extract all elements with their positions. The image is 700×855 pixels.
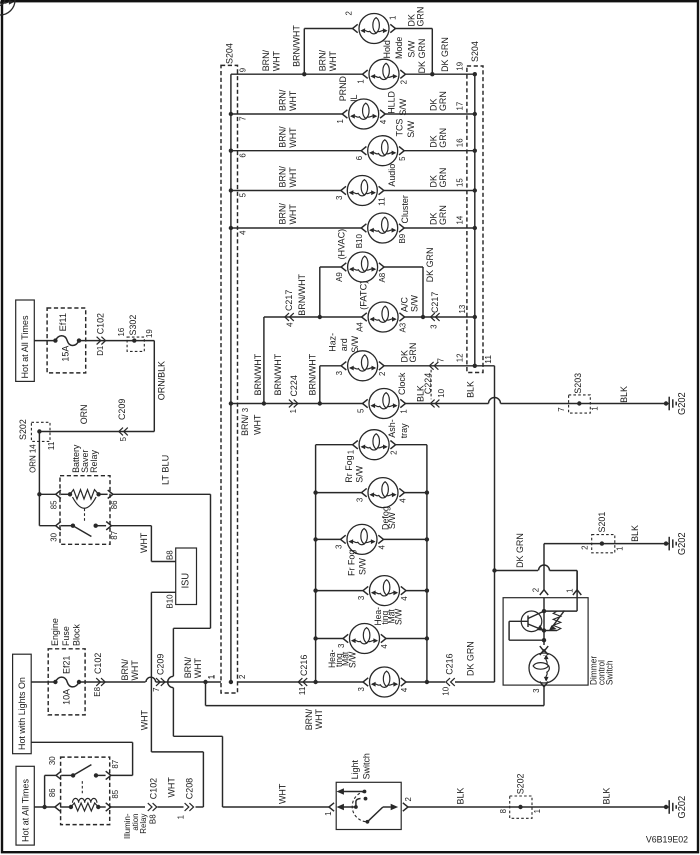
svg-text:C217: C217 [430,292,441,313]
svg-text:1: 1 [335,119,345,124]
svg-text:Hot at All Times: Hot at All Times [20,779,31,842]
svg-text:WHT: WHT [328,51,339,71]
svg-text:ISU: ISU [181,573,192,589]
svg-text:GRN: GRN [438,91,449,111]
svg-text:Switch: Switch [362,753,373,779]
svg-text:11: 11 [46,441,56,450]
svg-text:4: 4 [238,230,248,235]
svg-text:S302: S302 [128,315,139,336]
svg-text:7: 7 [151,687,161,692]
svg-text:BRN/WHT: BRN/WHT [297,274,308,316]
svg-text:LT BLU: LT BLU [161,455,172,485]
svg-text:Engine: Engine [50,618,61,646]
svg-text:WHT: WHT [288,127,299,147]
svg-text:V6B19E02: V6B19E02 [646,835,688,845]
svg-text:87: 87 [109,531,119,540]
svg-text:Ef11: Ef11 [58,313,69,331]
svg-text:3: 3 [356,687,366,692]
svg-text:S202: S202 [516,774,527,795]
svg-text:4: 4 [399,596,409,601]
svg-text:6: 6 [354,156,364,161]
svg-text:S/W: S/W [407,40,418,58]
svg-text:1: 1 [387,15,397,20]
svg-text:BRN/: BRN/ [278,126,289,148]
svg-text:DK GRN: DK GRN [440,37,451,72]
svg-text:GRN: GRN [438,168,449,188]
svg-text:17: 17 [454,101,464,110]
svg-text:8: 8 [498,809,508,814]
svg-text:BRN/: BRN/ [261,50,272,72]
svg-text:C208: C208 [185,778,196,799]
svg-text:ORN 14: ORN 14 [27,444,37,473]
svg-text:1: 1 [206,674,216,679]
svg-text:WHT: WHT [288,167,299,187]
svg-text:Clock: Clock [397,373,408,395]
svg-text:Relay: Relay [89,450,100,473]
svg-text:30: 30 [47,756,57,765]
svg-text:S204: S204 [470,41,481,62]
svg-text:DK GRN: DK GRN [425,248,436,283]
svg-text:10: 10 [440,687,450,696]
svg-text:TCS: TCS [395,119,406,137]
svg-text:1: 1 [532,809,542,814]
svg-text:5: 5 [118,437,128,442]
svg-text:30: 30 [48,533,58,542]
svg-text:3: 3 [336,643,346,648]
svg-text:B9: B9 [397,234,407,244]
svg-text:DK GRN: DK GRN [417,39,428,74]
svg-text:11: 11 [483,355,493,364]
svg-text:6: 6 [238,153,248,158]
svg-text:3: 3 [354,498,364,503]
svg-text:S201: S201 [597,512,608,533]
svg-text:B8: B8 [148,814,158,824]
svg-text:BRN/WHT: BRN/WHT [273,354,284,396]
svg-text:WHT: WHT [288,204,299,224]
svg-text:A9: A9 [334,272,344,282]
svg-text:S203: S203 [573,373,584,394]
svg-text:2: 2 [388,450,398,455]
svg-text:C209: C209 [117,399,128,420]
svg-text:E8: E8 [92,687,102,697]
svg-text:3: 3 [240,408,250,413]
svg-text:4: 4 [379,644,389,649]
svg-text:GRN: GRN [438,205,449,225]
svg-text:GRN: GRN [415,7,426,27]
svg-text:85: 85 [48,500,58,509]
svg-text:S/W: S/W [387,511,398,529]
svg-text:Block: Block [72,624,83,646]
svg-text:D1: D1 [95,345,105,355]
svg-text:87: 87 [110,760,120,769]
svg-text:13: 13 [457,304,467,313]
svg-text:4: 4 [397,498,407,503]
svg-text:1: 1 [323,811,333,816]
svg-text:WHT: WHT [193,658,204,678]
svg-text:Light: Light [350,760,361,780]
svg-text:A3: A3 [397,323,407,333]
svg-text:BLK: BLK [466,380,477,397]
svg-text:86: 86 [109,500,119,509]
svg-text:A4: A4 [355,322,365,332]
svg-text:4: 4 [376,545,386,550]
svg-text:S/W: S/W [350,335,361,353]
svg-text:7: 7 [238,116,248,121]
svg-text:C102: C102 [93,653,104,674]
svg-text:Mode: Mode [394,37,405,59]
svg-text:4: 4 [399,688,409,693]
svg-text:BRN/: BRN/ [278,89,289,111]
svg-text:(HVAC): (HVAC) [336,229,347,260]
svg-text:3: 3 [333,544,343,549]
svg-text:1: 1 [564,588,574,593]
svg-text:C217: C217 [284,290,295,311]
svg-text:BRN/WHT: BRN/WHT [292,25,303,67]
svg-text:19: 19 [454,62,464,71]
svg-text:WHT: WHT [139,533,150,553]
svg-text:WHT: WHT [278,784,289,804]
svg-text:BLK: BLK [630,524,641,541]
svg-text:3: 3 [531,688,541,693]
svg-text:2: 2 [530,588,540,593]
svg-text:10: 10 [436,389,446,398]
svg-text:G202: G202 [677,795,688,818]
svg-text:Hot at All Times: Hot at All Times [20,315,31,378]
svg-text:BRN/WHT: BRN/WHT [308,354,319,396]
svg-text:1: 1 [176,815,186,820]
svg-text:S202: S202 [18,419,29,440]
svg-text:C209: C209 [155,654,166,675]
svg-text:2: 2 [343,11,353,16]
svg-text:3: 3 [334,195,344,200]
svg-text:WHT: WHT [288,91,299,111]
svg-text:A8: A8 [377,273,387,283]
svg-text:C216: C216 [299,655,310,676]
svg-text:tray: tray [399,423,410,438]
svg-text:12: 12 [454,353,464,362]
svg-text:Relay: Relay [138,813,148,834]
svg-text:WHT: WHT [139,710,150,730]
svg-text:G202: G202 [677,532,688,555]
svg-text:16: 16 [116,327,126,336]
svg-text:85: 85 [110,790,120,799]
svg-text:2: 2 [398,80,408,85]
svg-text:GRN: GRN [408,343,419,363]
svg-text:BRN/WHT: BRN/WHT [253,354,264,396]
svg-text:10A: 10A [62,688,73,704]
svg-text:Haz-: Haz- [327,333,338,352]
svg-text:B8: B8 [164,550,174,560]
svg-text:C224: C224 [423,372,434,394]
svg-text:BRN/: BRN/ [318,50,329,72]
svg-text:C216: C216 [445,654,456,675]
svg-text:B10: B10 [164,594,174,608]
svg-text:Ash-: Ash- [387,419,398,437]
svg-text:DK GRN: DK GRN [465,641,476,676]
svg-text:5: 5 [355,408,365,413]
svg-text:7: 7 [556,407,566,412]
svg-text:4: 4 [378,120,388,125]
svg-text:11: 11 [297,686,307,695]
svg-text:WHT: WHT [130,660,141,680]
svg-text:5: 5 [397,156,407,161]
svg-text:BLK: BLK [619,385,630,402]
svg-text:Fr Fog: Fr Fog [347,550,358,576]
svg-text:19: 19 [144,329,154,338]
svg-text:Ef21: Ef21 [62,656,73,674]
svg-text:WHT: WHT [167,777,178,797]
svg-text:S/W: S/W [406,120,417,138]
svg-text:Cluster: Cluster [400,194,411,223]
svg-text:IL: IL [349,94,360,102]
svg-text:GRN: GRN [438,128,449,148]
svg-text:1: 1 [288,409,298,414]
svg-text:1: 1 [398,409,408,414]
svg-text:5: 5 [238,193,248,198]
svg-text:16: 16 [454,138,464,147]
svg-text:G202: G202 [677,392,688,415]
svg-text:C102: C102 [95,313,106,334]
svg-text:Audio: Audio [387,164,398,187]
svg-text:4: 4 [284,322,294,327]
svg-text:BRN/: BRN/ [278,166,289,188]
svg-text:C102: C102 [149,778,160,799]
svg-text:BRN/: BRN/ [278,203,289,225]
svg-text:2: 2 [237,674,247,679]
svg-text:Hot with Lights On: Hot with Lights On [17,677,28,750]
svg-text:Rr Fog: Rr Fog [344,455,355,482]
svg-text:ORN/BLK: ORN/BLK [157,360,168,400]
svg-text:HLLD: HLLD [387,91,398,114]
svg-text:BLK: BLK [602,787,613,804]
svg-text:PRND: PRND [338,76,349,101]
svg-text:DK GRN: DK GRN [515,533,526,568]
svg-text:Hold: Hold [382,40,393,58]
svg-text:15: 15 [454,178,464,187]
svg-text:S/W: S/W [358,557,369,575]
svg-text:BLK: BLK [456,787,467,804]
svg-text:C224: C224 [289,375,300,397]
svg-text:2: 2 [403,797,413,802]
svg-text:Switch: Switch [604,661,614,686]
svg-text:1: 1 [614,546,624,551]
svg-text:ard: ard [339,338,350,351]
svg-text:14: 14 [454,215,464,224]
svg-text:S/W: S/W [347,652,357,668]
svg-text:7: 7 [435,358,445,363]
svg-text:11: 11 [377,197,387,206]
svg-text:9: 9 [238,68,248,73]
svg-text:2: 2 [377,371,387,376]
svg-text:WHT: WHT [272,51,283,71]
svg-text:2: 2 [579,545,589,550]
svg-text:1: 1 [355,79,365,84]
svg-text:86: 86 [47,788,57,797]
svg-text:S/W: S/W [393,609,403,625]
svg-text:ORN: ORN [79,404,90,424]
svg-text:3: 3 [356,596,366,601]
svg-text:(FATC): (FATC) [358,281,369,310]
svg-text:S/W: S/W [409,294,420,312]
svg-text:S/W: S/W [355,465,366,483]
svg-text:1: 1 [589,406,599,411]
svg-text:B10: B10 [354,234,364,248]
svg-text:1: 1 [346,450,356,455]
svg-text:3: 3 [334,371,344,376]
svg-text:S204: S204 [225,43,236,64]
svg-text:S/W: S/W [398,98,409,116]
svg-text:15A: 15A [61,345,72,361]
svg-text:WHT: WHT [314,709,325,729]
svg-text:3: 3 [428,324,438,329]
svg-text:BRN/: BRN/ [240,414,251,436]
svg-text:WHT: WHT [253,414,264,434]
svg-text:Fuse: Fuse [61,626,72,646]
